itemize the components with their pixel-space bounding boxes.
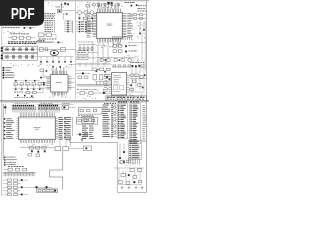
- svg-text:PDF: PDF: [11, 6, 35, 23]
